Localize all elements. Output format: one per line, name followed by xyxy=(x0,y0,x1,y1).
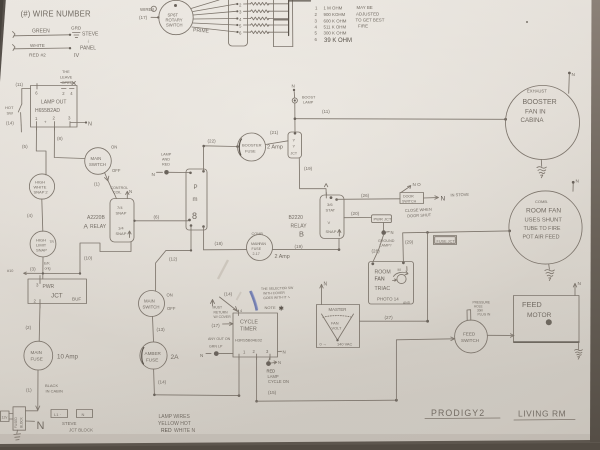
label PRESSURE HOLE xyxy=(473,301,491,317)
svg-text:2A: 2A xyxy=(171,354,180,361)
svg-text:STEVE: STEVE xyxy=(62,421,76,426)
junction box PWR JCT (2) xyxy=(372,215,392,223)
svg-text:N: N xyxy=(324,282,328,288)
svg-text:N: N xyxy=(578,281,582,287)
wire (26) relay B to door switch xyxy=(335,198,400,201)
pos 3 xyxy=(236,10,242,15)
lamp BOOST LAMP xyxy=(292,84,298,133)
svg-text:m: m xyxy=(193,197,198,203)
label THE SELECTOR SW WITH COVER xyxy=(261,286,295,300)
wire rotary to pos5 xyxy=(193,23,236,25)
svg-text:AND: AND xyxy=(403,301,411,305)
junction at 427.5,232.4 xyxy=(426,231,429,234)
switch HOT SW xyxy=(18,104,22,125)
svg-text:COIL: COIL xyxy=(113,191,121,195)
label STEVE JCT BLOCK xyxy=(62,421,93,433)
title LIVING RM underlined xyxy=(514,409,575,421)
svg-text:8: 8 xyxy=(152,8,154,12)
svg-text:2-17: 2-17 xyxy=(253,252,260,256)
svg-text:140 VAC: 140 VAC xyxy=(337,342,352,347)
wire stub into rotary xyxy=(151,16,160,18)
wire (19) Y jct down to relay B xyxy=(299,158,328,195)
label LAMP AND RED xyxy=(161,153,172,167)
label BOOST LAMP xyxy=(302,96,316,105)
wire pos6 to R6 xyxy=(244,31,251,33)
ground GRD symbol xyxy=(73,33,81,38)
module PM8 xyxy=(186,169,207,230)
paper speck xyxy=(526,21,528,23)
svg-text:JCT: JCT xyxy=(51,293,63,300)
svg-text:AMBER: AMBER xyxy=(145,351,162,356)
label CONTROL COIL xyxy=(111,186,129,195)
terminal N (room fan) xyxy=(572,179,580,192)
label E/K orig xyxy=(44,262,51,271)
svg-text:FAN: FAN xyxy=(375,277,385,283)
pos 5 xyxy=(236,23,242,28)
label LAMP WIRES note xyxy=(158,414,195,434)
svg-text:RED: RED xyxy=(162,163,170,167)
svg-text:FAN: FAN xyxy=(259,242,266,246)
svg-text:THE: THE xyxy=(62,69,70,74)
wire (29) triac right pin up and over to room fan xyxy=(403,230,511,263)
svg-text:RETURN: RETURN xyxy=(214,310,229,314)
svg-text:N: N xyxy=(576,179,580,185)
wire (12) PM8 to main switch 2 xyxy=(156,226,193,291)
svg-text:BOOSTER: BOOSTER xyxy=(523,99,557,106)
pin 6 xyxy=(35,84,38,96)
svg-text:(5): (5) xyxy=(22,144,28,149)
svg-text:BOOST: BOOST xyxy=(302,96,316,100)
svg-text:(8): (8) xyxy=(57,136,63,141)
svg-text:LAMP?: LAMP? xyxy=(380,244,392,248)
module ROOM FAN TRIAC xyxy=(369,261,414,305)
wire (1) main fuse down xyxy=(36,370,40,410)
svg-text:PRODIGY2: PRODIGY2 xyxy=(431,408,485,418)
svg-text:PHOTO 14: PHOTO 14 xyxy=(377,297,399,302)
wire pos4 to R4 xyxy=(244,18,251,20)
svg-text:N: N xyxy=(278,360,281,365)
svg-text:PLUG IN: PLUG IN xyxy=(478,313,491,317)
svg-text:N: N xyxy=(129,189,132,194)
svg-text:(11): (11) xyxy=(16,82,24,87)
svg-text:DOOR: DOOR xyxy=(403,194,414,198)
wire into steve jct xyxy=(26,410,38,412)
svg-text:LEAVE: LEAVE xyxy=(60,75,73,80)
svg-text:OFF: OFF xyxy=(112,168,121,173)
fuse MAIN FUSE 10A xyxy=(24,341,53,370)
svg-text:(2): (2) xyxy=(26,325,32,330)
wire bus to cycle pin1 riser xyxy=(153,394,240,397)
svg-text:N: N xyxy=(82,412,85,417)
paper edge shadow above table xyxy=(0,434,600,444)
svg-text:FUSE JCT: FUSE JCT xyxy=(437,239,456,243)
svg-text:W/ COVER: W/ COVER xyxy=(214,315,232,319)
svg-text:39 K OHM: 39 K OHM xyxy=(324,38,352,44)
junction box PWR JCT BUF xyxy=(28,279,87,304)
wire (21) fuse to Y jct xyxy=(266,141,289,145)
wire pos5 to R5 xyxy=(244,24,251,26)
svg-text:N: N xyxy=(200,353,203,358)
wire rotary to pos1 xyxy=(191,0,219,9)
svg-text:4: 4 xyxy=(240,309,242,313)
pin N arrow right of pin3 xyxy=(278,350,286,355)
svg-text:STAT: STAT xyxy=(326,208,336,213)
pin 1 (cycle) xyxy=(239,350,246,360)
pin 2 (cycle) xyxy=(253,349,257,360)
label GROUND LAMP? xyxy=(378,239,395,248)
meter MASTER FAN VOLT xyxy=(317,305,360,348)
svg-text:E/K: E/K xyxy=(44,262,50,266)
wire riser fuse jct vertical xyxy=(427,232,429,321)
svg-text:TRIAC: TRIAC xyxy=(375,286,391,292)
svg-text:511 K OHM: 511 K OHM xyxy=(324,25,347,30)
svg-text:3/6: 3/6 xyxy=(327,202,333,207)
svg-text:(12): (12) xyxy=(169,257,178,262)
motor FEED MOTOR xyxy=(514,296,580,343)
svg-text:GROUND: GROUND xyxy=(378,239,395,243)
svg-text:SWITCH: SWITCH xyxy=(402,199,417,203)
wire door switch to N xyxy=(424,196,439,200)
svg-text:ROOM FAN: ROOM FAN xyxy=(526,208,561,215)
ground (room fan) xyxy=(545,264,555,281)
svg-text:(13): (13) xyxy=(157,327,166,332)
wire (1) switch to relay A coil xyxy=(105,173,117,199)
svg-text:(29): (29) xyxy=(405,240,414,245)
svg-text:(19): (19) xyxy=(304,166,313,171)
svg-text:↓: ↓ xyxy=(87,39,90,45)
svg-text:2 Amp: 2 Amp xyxy=(267,145,283,151)
wire R6 to strip xyxy=(268,31,289,33)
svg-text:H3RS5B04E02: H3RS5B04E02 xyxy=(235,338,263,343)
svg-text:CYCLE: CYCLE xyxy=(240,320,258,326)
svg-text:SNAP: SNAP xyxy=(116,231,127,236)
label HOT SW xyxy=(5,105,14,116)
svg-text:CABINA: CABINA xyxy=(521,117,545,124)
svg-text:LAMP: LAMP xyxy=(268,374,279,379)
svg-text:(1): (1) xyxy=(94,182,100,187)
wire (2) pwr jct to main fuse xyxy=(38,304,41,342)
svg-text:LAMP WIRES: LAMP WIRES xyxy=(159,414,191,420)
svg-text:MAY BE: MAY BE xyxy=(357,5,373,10)
svg-text:SNAP: SNAP xyxy=(36,248,47,253)
wire (8) lamp-out pin2 to main switch xyxy=(54,127,85,159)
wire stub below switch xyxy=(20,125,22,132)
label NOTE * xyxy=(265,305,284,313)
title (#) WIRE NUMBER xyxy=(21,10,91,19)
wire pos3 to R3 xyxy=(244,10,251,12)
lamp RED LAMP CYCLE ON xyxy=(266,357,281,366)
wire (14) diagonal into pin4 xyxy=(220,297,239,312)
svg-text:8: 8 xyxy=(192,211,197,221)
svg-text:JCT: JCT xyxy=(291,152,298,156)
pos 2 xyxy=(236,2,242,7)
wire (10) from relay A down-left xyxy=(80,242,131,274)
svg-text:TO GET BEST: TO GET BEST xyxy=(356,18,385,23)
svg-text:SWITCH: SWITCH xyxy=(143,305,160,310)
svg-text:SWITCH: SWITCH xyxy=(89,162,106,167)
svg-text:(17): (17) xyxy=(139,15,148,20)
wire (22) PM8 to booster fuse xyxy=(202,145,238,171)
lamp GROUND LAMP xyxy=(381,223,393,235)
terminal 12V box xyxy=(1,411,10,422)
wire WHITE / RED #2 xyxy=(13,45,72,51)
fan EXHAUST BOOSTER FAN xyxy=(506,86,580,160)
svg-text:ON: ON xyxy=(111,145,117,150)
table surface bottom strip xyxy=(0,440,600,450)
terminal N (feed motor) xyxy=(573,281,581,296)
svg-text:(1): (1) xyxy=(26,388,32,393)
svg-text:TIMER: TIMER xyxy=(240,327,257,333)
svg-text:COMB: COMB xyxy=(252,232,264,236)
svg-text:600 K OHM: 600 K OHM xyxy=(324,19,347,24)
ground (booster fan) xyxy=(537,160,547,178)
svg-text:CYCLE ON: CYCLE ON xyxy=(268,379,289,384)
svg-text:orig: orig xyxy=(45,267,51,271)
label MUST RETURN W COVER xyxy=(211,300,232,320)
svg-text:OFF: OFF xyxy=(167,306,176,311)
resistor R2 xyxy=(251,2,270,5)
resistor R6 xyxy=(251,31,270,34)
svg-text:10 Amp: 10 Amp xyxy=(57,354,79,361)
svg-text:(15): (15) xyxy=(268,390,277,395)
svg-text:N: N xyxy=(88,122,92,128)
pin 2 xyxy=(34,299,41,309)
legend resistor values xyxy=(315,5,385,44)
svg-text:ADJUSTED: ADJUSTED xyxy=(356,12,379,17)
pos 4 xyxy=(236,17,242,22)
switch SP6T ROTARY xyxy=(159,0,193,34)
svg-text:N: N xyxy=(283,350,286,355)
label RED LAMP CYCLE ON xyxy=(267,369,289,385)
junction box Y JCT xyxy=(288,132,302,158)
fuse COMB MAIN FAN FUSE xyxy=(247,235,273,261)
wire R4 to strip (dark retrace) xyxy=(268,19,289,20)
svg-text:MUST: MUST xyxy=(213,306,223,310)
wire (6) relay A to PM8 xyxy=(133,219,191,222)
resistor R4 xyxy=(251,17,270,20)
svg-text:GREEN: GREEN xyxy=(32,29,50,35)
svg-text:COMB.: COMB. xyxy=(535,199,548,204)
title PRODIGY2 underlined xyxy=(425,408,500,419)
wire stubs 12V to block xyxy=(9,414,13,420)
svg-text:AND: AND xyxy=(162,158,170,162)
fan COMB ROOM FAN xyxy=(509,191,582,264)
svg-text:BLOCK: BLOCK xyxy=(20,416,24,428)
svg-text:N: N xyxy=(572,72,576,78)
svg-text:PWR JCT: PWR JCT xyxy=(374,217,392,222)
svg-text:7/4: 7/4 xyxy=(117,205,123,210)
pin 3 xyxy=(68,116,71,128)
svg-text:BOOSTER: BOOSTER xyxy=(242,143,262,148)
svg-text:B2220: B2220 xyxy=(289,215,304,221)
svg-text:M: M xyxy=(398,268,401,272)
pin 4 (cycle top) xyxy=(239,309,243,316)
wire R3 to strip xyxy=(268,10,289,12)
svg-text:MASTER: MASTER xyxy=(329,307,347,312)
wire high limit to PWR JCT pin3 xyxy=(42,257,44,279)
wire (18) PM8 to fan fuse xyxy=(203,227,205,250)
svg-text:BUF: BUF xyxy=(72,297,81,302)
svg-text:GRD: GRD xyxy=(71,26,82,31)
svg-text:LAMP OUT: LAMP OUT xyxy=(41,100,66,106)
svg-text:(#) WIRE NUMBER: (#) WIRE NUMBER xyxy=(21,10,91,19)
terminal N box xyxy=(77,410,93,418)
wire rotary to pos4 xyxy=(193,18,236,21)
svg-text:SNAP: SNAP xyxy=(326,229,337,234)
wire (5): pin1 down to snap xyxy=(36,127,46,175)
svg-text:WHITE: WHITE xyxy=(30,43,45,48)
svg-text:(3): (3) xyxy=(30,267,36,272)
svg-text:1/4: 1/4 xyxy=(118,226,124,231)
svg-text:900 KOHM: 900 KOHM xyxy=(324,12,346,17)
svg-text:MAIN: MAIN xyxy=(144,299,155,304)
svg-text:WHITE N: WHITE N xyxy=(174,428,195,434)
wire block to N xyxy=(26,420,35,422)
svg-text:(20): (20) xyxy=(351,211,360,216)
svg-text:Y: Y xyxy=(293,138,296,143)
label THE LEAVE OPEN xyxy=(60,69,75,85)
switch DOOR SWITCH xyxy=(400,186,424,204)
wire R2 to strip xyxy=(268,3,289,5)
svg-text:HOT: HOT xyxy=(5,105,14,110)
svg-text:LIVING RM: LIVING RM xyxy=(518,409,566,419)
arrow into feed switch xyxy=(451,337,455,341)
pencil smudge xyxy=(218,260,228,279)
svg-text:NOTE: NOTE xyxy=(265,305,276,310)
pin 3 (cycle) xyxy=(266,349,270,360)
svg-text:+: + xyxy=(44,120,47,125)
svg-text:(17): (17) xyxy=(212,323,221,328)
fuse BOOSTER FUSE 2A xyxy=(238,133,266,161)
svg-text:FAN IN: FAN IN xyxy=(525,109,546,116)
switch MAIN SWITCH 1 xyxy=(85,148,112,175)
terminal L1 box xyxy=(51,410,68,418)
svg-text:(22): (22) xyxy=(208,139,217,144)
svg-text:JCT BLOCK: JCT BLOCK xyxy=(69,428,93,433)
svg-text:300 K OHM: 300 K OHM xyxy=(324,31,347,36)
fuse AMBER FUSE 2A xyxy=(140,342,167,369)
svg-text:SNAP: SNAP xyxy=(116,211,127,216)
wire (17) arrow into cycle left xyxy=(223,322,234,325)
resistor R3 xyxy=(251,10,270,13)
svg-text:ON: ON xyxy=(167,293,173,298)
svg-text:N: N xyxy=(441,196,446,203)
svg-text:VOLT: VOLT xyxy=(332,326,342,331)
svg-text:WIRE: WIRE xyxy=(140,7,152,12)
svg-text:N: N xyxy=(37,420,45,432)
wire riser to cycle timer pin1 xyxy=(238,357,240,396)
wire ground lamp to triac xyxy=(373,235,384,262)
svg-text:FUSE: FUSE xyxy=(146,358,158,363)
svg-text:0 →: 0 → xyxy=(320,342,327,347)
junction dot at 80,273 xyxy=(79,272,81,274)
svg-text:EXHAUST: EXHAUST xyxy=(527,89,547,94)
svg-text:(19): (19) xyxy=(295,244,304,249)
pressure tube stub xyxy=(467,310,471,321)
svg-text:(14): (14) xyxy=(224,292,233,297)
pin 3 xyxy=(36,276,40,288)
pot symbol on triac xyxy=(393,267,409,284)
svg-text:P: P xyxy=(194,185,198,191)
svg-text:A2220B: A2220B xyxy=(87,215,105,221)
svg-text:STEVE: STEVE xyxy=(82,32,99,38)
svg-text:(27): (27) xyxy=(385,315,394,320)
wire pin3 to N xyxy=(71,121,88,123)
svg-text:MOTOR: MOTOR xyxy=(527,312,552,319)
svg-text:ANY OUT ON: ANY OUT ON xyxy=(208,337,231,341)
svg-text:IN STOVE: IN STOVE xyxy=(450,192,469,198)
svg-text:YELLOW HOT: YELLOW HOT xyxy=(158,421,191,427)
svg-text:V: V xyxy=(328,220,331,225)
svg-text:1 M OHM: 1 M OHM xyxy=(324,6,343,11)
wire rotary to pos3 xyxy=(193,11,236,15)
table surface right strip xyxy=(590,0,600,442)
svg-text:FIRE: FIRE xyxy=(358,24,368,29)
label STEVE panel xyxy=(80,32,99,52)
svg-text:SW: SW xyxy=(7,111,14,116)
lamp green (cycle) xyxy=(200,351,233,358)
terminal strip right xyxy=(274,0,293,47)
svg-text:TUBE TO FIRE: TUBE TO FIRE xyxy=(524,226,561,232)
svg-text:(21): (21) xyxy=(270,130,279,135)
svg-text:CONTROL: CONTROL xyxy=(111,186,129,190)
svg-text:N O: N O xyxy=(413,182,422,187)
table surface top-left corner sliver xyxy=(0,0,6,82)
lamp out box H655B2AD xyxy=(31,86,78,128)
svg-text:TR: TR xyxy=(50,240,55,244)
wire (15) pin2 down and right xyxy=(255,357,397,403)
terminal strip left xyxy=(229,0,248,46)
label WIRE (8) xyxy=(140,6,156,12)
bus bar top edge (dark) xyxy=(289,0,311,2)
svg-text:IV: IV xyxy=(74,53,80,59)
svg-text:USES SHUNT: USES SHUNT xyxy=(525,218,563,224)
svg-text:SWITCH: SWITCH xyxy=(166,23,183,28)
switch FEED SWITCH xyxy=(455,320,488,353)
bus bar (dark) in right strip xyxy=(288,0,290,36)
svg-text:FEED: FEED xyxy=(463,332,476,337)
lamp LAMP AND RED (N side) xyxy=(152,170,191,178)
timer CYCLE TIMER box xyxy=(233,313,278,357)
svg-text:(4): (4) xyxy=(27,213,33,218)
relay A contact box xyxy=(110,199,134,243)
svg-text:(14): (14) xyxy=(6,121,14,126)
pos 6 xyxy=(236,30,242,35)
wire main switch 2 to amber fuse xyxy=(153,317,154,342)
wire (27) master to junction xyxy=(360,320,430,323)
svg-text:A: A xyxy=(84,224,89,231)
svg-text:N: N xyxy=(391,230,394,235)
svg-text:#10: #10 xyxy=(7,269,13,273)
svg-text:PANEL: PANEL xyxy=(80,46,96,52)
svg-text:ROOM: ROOM xyxy=(375,270,391,276)
ground (feed motor) xyxy=(575,343,583,360)
svg-text:12v: 12v xyxy=(2,416,8,420)
wire riser to feed line xyxy=(396,339,454,400)
wire (4) snap to high limit xyxy=(42,199,43,231)
pin 2 (bottom) xyxy=(44,116,56,131)
blue pen mark xyxy=(250,291,257,311)
svg-text:2 Amp: 2 Amp xyxy=(275,254,290,260)
junction block STEVE JCT xyxy=(13,407,26,430)
ground below steve jct xyxy=(14,430,21,440)
junction box FUSE JCT (double border) xyxy=(434,236,457,245)
wire pos2 to R2 xyxy=(244,3,251,5)
wire rotary to pos6 xyxy=(192,27,237,32)
svg-text:Y: Y xyxy=(293,144,296,149)
wire amber fuse down to bus xyxy=(153,369,156,395)
svg-text:FUSE: FUSE xyxy=(31,357,43,362)
